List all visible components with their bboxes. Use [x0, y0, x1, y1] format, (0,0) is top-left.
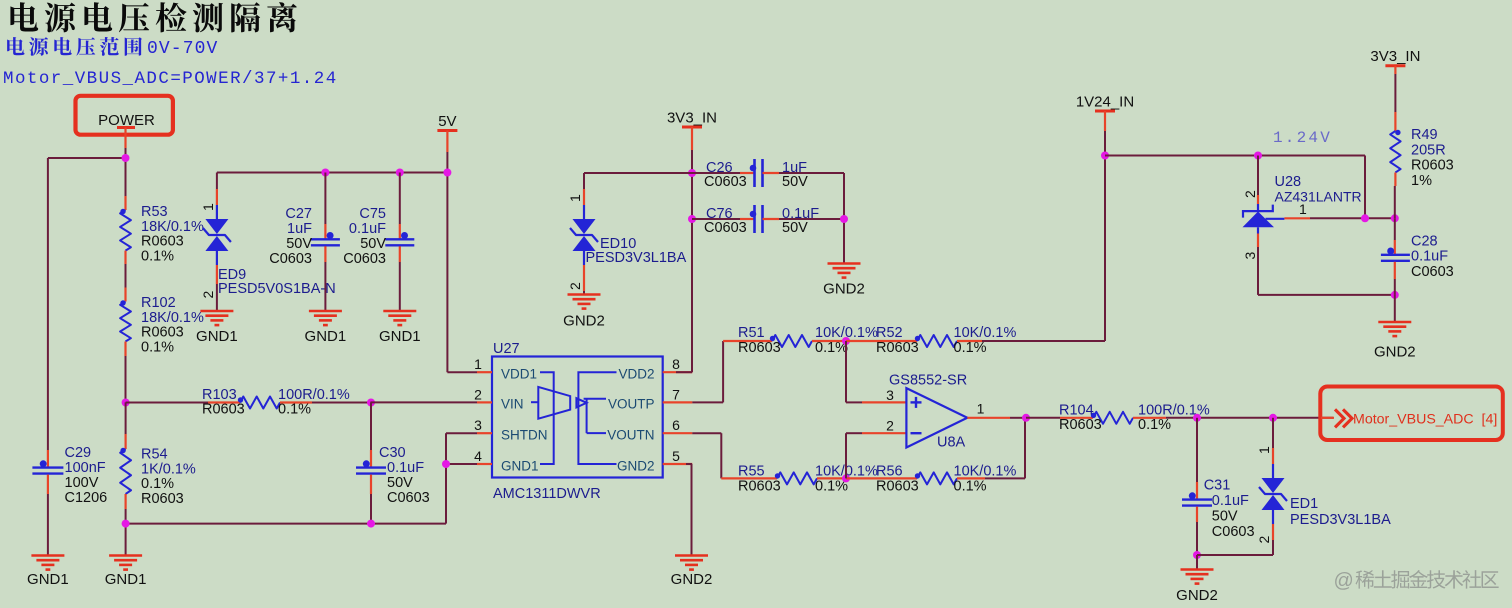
svg-text:R0603: R0603 — [1059, 417, 1102, 433]
svg-text:18K/0.1%: 18K/0.1% — [141, 219, 204, 235]
junction bottom rail — [122, 520, 375, 528]
svg-text:C0603: C0603 — [343, 251, 386, 267]
junction C31 bottom — [1193, 551, 1201, 559]
capacitor C76 — [692, 205, 844, 236]
junction R55/R56 (op-amp -) — [842, 474, 850, 482]
svg-text:VIN: VIN — [501, 397, 524, 412]
svg-text:VDD2: VDD2 — [618, 367, 654, 382]
capacitor C75 — [343, 173, 414, 312]
svg-text:3V3_IN: 3V3_IN — [1370, 48, 1420, 65]
wire R102 to node A — [125, 356, 127, 402]
svg-text:2: 2 — [474, 386, 482, 402]
ground GND1 under R54 — [105, 524, 147, 588]
wire C28 to GND2 — [1394, 295, 1396, 322]
svg-text:0.1%: 0.1% — [141, 476, 174, 492]
wire R54 to GND rail — [125, 509, 127, 524]
svg-text:C31: C31 — [1204, 478, 1231, 494]
ground GND2 right of C76 — [823, 264, 865, 298]
svg-text:0.1uF: 0.1uF — [1411, 249, 1448, 265]
svg-text:AZ431LANTR: AZ431LANTR — [1275, 189, 1362, 205]
svg-text:C0603: C0603 — [704, 174, 747, 190]
wire POWER node to R53 / C29 branch — [48, 148, 126, 450]
resistor R56 — [846, 464, 1016, 495]
svg-text:GND2: GND2 — [671, 571, 713, 588]
resistor R53 — [120, 196, 204, 264]
junction 3V3 rail — [688, 169, 696, 223]
wire R56 feedback to op-amp output — [985, 418, 1025, 479]
svg-text:VOUTN: VOUTN — [607, 428, 654, 443]
junction 1V24 branch — [1101, 152, 1109, 160]
svg-text:R54: R54 — [141, 447, 168, 463]
ground GND2 under ED10 — [563, 295, 605, 330]
op-amp U27 AMC1311DWVR isolation amplifier — [474, 341, 692, 502]
svg-text:PESD3V3L1BA: PESD3V3L1BA — [1290, 512, 1391, 528]
svg-text:U27: U27 — [493, 341, 520, 357]
wire 5V vertical to U27 pin1 — [447, 152, 477, 372]
svg-text:GS8552-SR: GS8552-SR — [889, 373, 967, 389]
svg-text:Motor_VBUS_ADC: Motor_VBUS_ADC — [1353, 411, 1474, 427]
ground GND2 under C31 — [1176, 555, 1218, 604]
wire 1V24 to U28 — [1105, 156, 1365, 219]
svg-text:50V: 50V — [782, 174, 808, 190]
svg-text:0.1uF: 0.1uF — [387, 460, 424, 476]
wire U27 pin 6 to R55 — [692, 433, 721, 478]
junction R51/R52 (op-amp +) — [842, 337, 850, 345]
svg-text:10K/0.1%: 10K/0.1% — [954, 464, 1017, 480]
resistor R52 — [846, 325, 1016, 356]
svg-text:R0603: R0603 — [141, 491, 184, 507]
svg-text:1%: 1% — [1411, 173, 1432, 189]
capacitor C26 — [692, 159, 844, 190]
svg-text:R49: R49 — [1411, 127, 1438, 143]
ground GND1 under C75 — [379, 311, 421, 345]
svg-text:PESD5V0S1BA-N: PESD5V0S1BA-N — [218, 281, 336, 297]
resistor R103 — [126, 387, 371, 418]
svg-text:0.1uF: 0.1uF — [1212, 493, 1249, 509]
subtitle 电源电压范围0V-70V — [7, 37, 218, 59]
svg-text:R0603: R0603 — [738, 479, 781, 495]
svg-text:GND2: GND2 — [563, 313, 605, 330]
junction pin3/4 tie — [442, 460, 450, 468]
svg-text:C29: C29 — [65, 445, 92, 461]
svg-text:C0603: C0603 — [387, 490, 430, 506]
svg-text:2: 2 — [1256, 536, 1272, 544]
capacitor C30 — [356, 402, 430, 523]
wire U27 pins 3/4 tie — [446, 433, 477, 464]
svg-text:1uF: 1uF — [287, 221, 312, 237]
ground GND2 under U28/C28 — [1374, 322, 1416, 361]
power 5V — [437, 113, 457, 152]
resistor R102 — [120, 288, 204, 357]
svg-text:GND2: GND2 — [1176, 587, 1218, 604]
svg-text:50V: 50V — [360, 236, 386, 252]
svg-text:PESD3V3L1BA: PESD3V3L1BA — [586, 250, 687, 266]
svg-text:R53: R53 — [141, 204, 168, 220]
junction C76 right — [840, 215, 848, 223]
wire node to U27 pin 2 — [370, 401, 477, 403]
svg-text:5: 5 — [672, 448, 680, 464]
ground GND1 under ED9 — [196, 311, 238, 345]
svg-text:GND2: GND2 — [1374, 344, 1416, 361]
svg-text:@: @ — [1334, 570, 1354, 592]
wire U27 pin 5 to GND2 — [691, 464, 693, 556]
svg-text:C0603: C0603 — [704, 220, 747, 236]
svg-text:1K/0.1%: 1K/0.1% — [141, 461, 196, 477]
svg-text:R55: R55 — [738, 464, 765, 480]
svg-text:2: 2 — [567, 282, 583, 290]
svg-text:50V: 50V — [1212, 509, 1238, 525]
svg-text:GND2: GND2 — [823, 281, 865, 298]
svg-text:R0603: R0603 — [1411, 158, 1454, 174]
svg-text:R0603: R0603 — [141, 325, 184, 341]
svg-text:R51: R51 — [738, 325, 765, 341]
junction POWER node — [122, 154, 130, 162]
wire 3V3_IN vertical to U27 pin 8 — [691, 150, 693, 372]
svg-text:2: 2 — [886, 418, 894, 434]
junction U28 cathode branch — [1254, 152, 1262, 160]
wire 5V decoupling rail — [217, 172, 448, 174]
svg-text:GND1: GND1 — [501, 458, 539, 473]
svg-text:3: 3 — [474, 417, 482, 433]
svg-text:0.1%: 0.1% — [141, 248, 174, 264]
svg-text:GND1: GND1 — [379, 328, 421, 345]
svg-text:C75: C75 — [359, 206, 386, 222]
junction output node — [1193, 414, 1277, 422]
capacitor C31 — [1182, 418, 1255, 555]
svg-text:C27: C27 — [285, 206, 312, 222]
wire R53 to R102 — [125, 264, 127, 288]
ground GND2 under U27 — [671, 556, 713, 589]
svg-text:GND1: GND1 — [27, 571, 69, 588]
svg-text:R0603: R0603 — [202, 402, 245, 418]
ground GND1 under C27 — [305, 311, 347, 345]
wire C26/C76 to GND2 — [843, 173, 845, 263]
svg-text:0.1%: 0.1% — [954, 479, 987, 495]
svg-text:100V: 100V — [65, 475, 99, 491]
svg-text:8: 8 — [672, 356, 680, 372]
junction op-amp output — [1022, 414, 1030, 422]
svg-text:GND1: GND1 — [105, 571, 147, 588]
svg-text:R0603: R0603 — [141, 234, 184, 250]
capacitor C27 — [269, 173, 340, 312]
svg-text:GND1: GND1 — [196, 328, 238, 345]
svg-text:Motor_VBUS_ADC=POWER/37+1.24: Motor_VBUS_ADC=POWER/37+1.24 — [3, 69, 338, 89]
capacitor C28 — [1381, 218, 1454, 295]
svg-text:0.1%: 0.1% — [954, 340, 987, 356]
svg-text:3: 3 — [1242, 252, 1258, 260]
svg-text:ED1: ED1 — [1290, 496, 1318, 512]
svg-text:R52: R52 — [876, 325, 903, 341]
ground GND1 under C29 — [27, 556, 69, 589]
capacitor C29 — [32, 445, 107, 506]
svg-text:0V-70V: 0V-70V — [147, 39, 218, 59]
resistor R49 — [1390, 118, 1454, 218]
svg-text:GND1: GND1 — [305, 328, 347, 345]
svg-text:2: 2 — [200, 291, 216, 299]
resistor R104 — [1026, 403, 1210, 434]
svg-text:0.1%: 0.1% — [141, 339, 174, 355]
svg-text:1.24V: 1.24V — [1273, 129, 1332, 147]
svg-text:6: 6 — [672, 417, 680, 433]
svg-text:10K/0.1%: 10K/0.1% — [954, 325, 1017, 341]
TVS diode ED9 — [200, 173, 336, 312]
svg-text:205R: 205R — [1411, 142, 1446, 158]
svg-text:1: 1 — [1256, 446, 1272, 454]
formula Motor_VBUS_ADC=POWER/37+1.24 — [3, 69, 338, 89]
port POWER — [76, 96, 173, 148]
svg-text:50V: 50V — [286, 236, 312, 252]
resistor R54 — [120, 402, 196, 509]
svg-text:C0603: C0603 — [1411, 264, 1454, 280]
title 电源电压检测隔离 — [10, 2, 296, 32]
resistor R55 — [721, 464, 878, 495]
svg-text:50V: 50V — [387, 475, 413, 491]
svg-text:100nF: 100nF — [65, 460, 106, 476]
svg-text:R0603: R0603 — [876, 479, 919, 495]
junction U28 ref node — [1361, 214, 1399, 299]
svg-text:U8A: U8A — [937, 434, 966, 450]
resistor R51 — [723, 325, 878, 356]
svg-text:SHTDN: SHTDN — [501, 428, 548, 443]
svg-text:1: 1 — [567, 194, 583, 202]
svg-text:C0603: C0603 — [269, 251, 312, 267]
shunt reference U28 AZ431LANTR — [1242, 156, 1395, 295]
svg-text:50V: 50V — [782, 220, 808, 236]
svg-text:2: 2 — [1242, 190, 1258, 198]
svg-text:VOUTP: VOUTP — [608, 397, 655, 412]
svg-text:7: 7 — [672, 386, 680, 402]
svg-text:GND2: GND2 — [617, 458, 655, 473]
svg-text:C0603: C0603 — [1212, 524, 1255, 540]
svg-text:C30: C30 — [379, 445, 406, 461]
junction R103 output node — [367, 399, 375, 407]
power 3V3_IN (right) — [1370, 48, 1420, 118]
power 3V3_IN (isolated side) — [667, 110, 717, 151]
power 1V24_IN — [1076, 94, 1134, 132]
net label 1.24V — [1273, 129, 1332, 147]
svg-text:R102: R102 — [141, 295, 176, 311]
wire U27 pin 7 to R51 — [692, 341, 723, 402]
svg-text:R0603: R0603 — [738, 340, 781, 356]
wire C29 to ground — [47, 494, 49, 556]
svg-text:0.1%: 0.1% — [278, 402, 311, 418]
wire GND1 bottom rail — [126, 464, 446, 524]
svg-text:[4]: [4] — [1482, 411, 1498, 427]
wire output node to port — [1197, 417, 1333, 419]
svg-text:3V3_IN: 3V3_IN — [667, 110, 717, 127]
svg-text:1: 1 — [200, 203, 216, 211]
junction 5V rail — [321, 169, 451, 177]
svg-text:C1206: C1206 — [65, 490, 108, 506]
svg-text:0.1%: 0.1% — [1138, 417, 1171, 433]
svg-text:AMC1311DWVR: AMC1311DWVR — [493, 486, 601, 502]
TVS diode ED10 — [567, 173, 692, 295]
svg-text:C28: C28 — [1411, 233, 1438, 249]
svg-text:4: 4 — [474, 448, 482, 464]
svg-text:3: 3 — [886, 387, 894, 403]
svg-text:1: 1 — [977, 401, 985, 417]
watermark @稀土掘金技术社区 — [1334, 570, 1499, 592]
svg-text:R0603: R0603 — [876, 340, 919, 356]
svg-text:5V: 5V — [438, 113, 456, 130]
svg-text:1: 1 — [474, 356, 482, 372]
svg-text:0.1uF: 0.1uF — [349, 221, 386, 237]
TVS diode ED1 — [1197, 418, 1391, 555]
svg-text:R56: R56 — [876, 464, 903, 480]
svg-text:18K/0.1%: 18K/0.1% — [141, 310, 204, 326]
wire R52 to 1V24_IN — [982, 131, 1105, 341]
port Motor_VBUS_ADC — [1320, 387, 1503, 441]
svg-text:1V24_IN: 1V24_IN — [1076, 94, 1134, 111]
junction node A (R102/R103/R54) — [122, 399, 130, 407]
op-amp U8A GS8552-SR — [846, 341, 1026, 478]
svg-text:VDD1: VDD1 — [501, 367, 537, 382]
